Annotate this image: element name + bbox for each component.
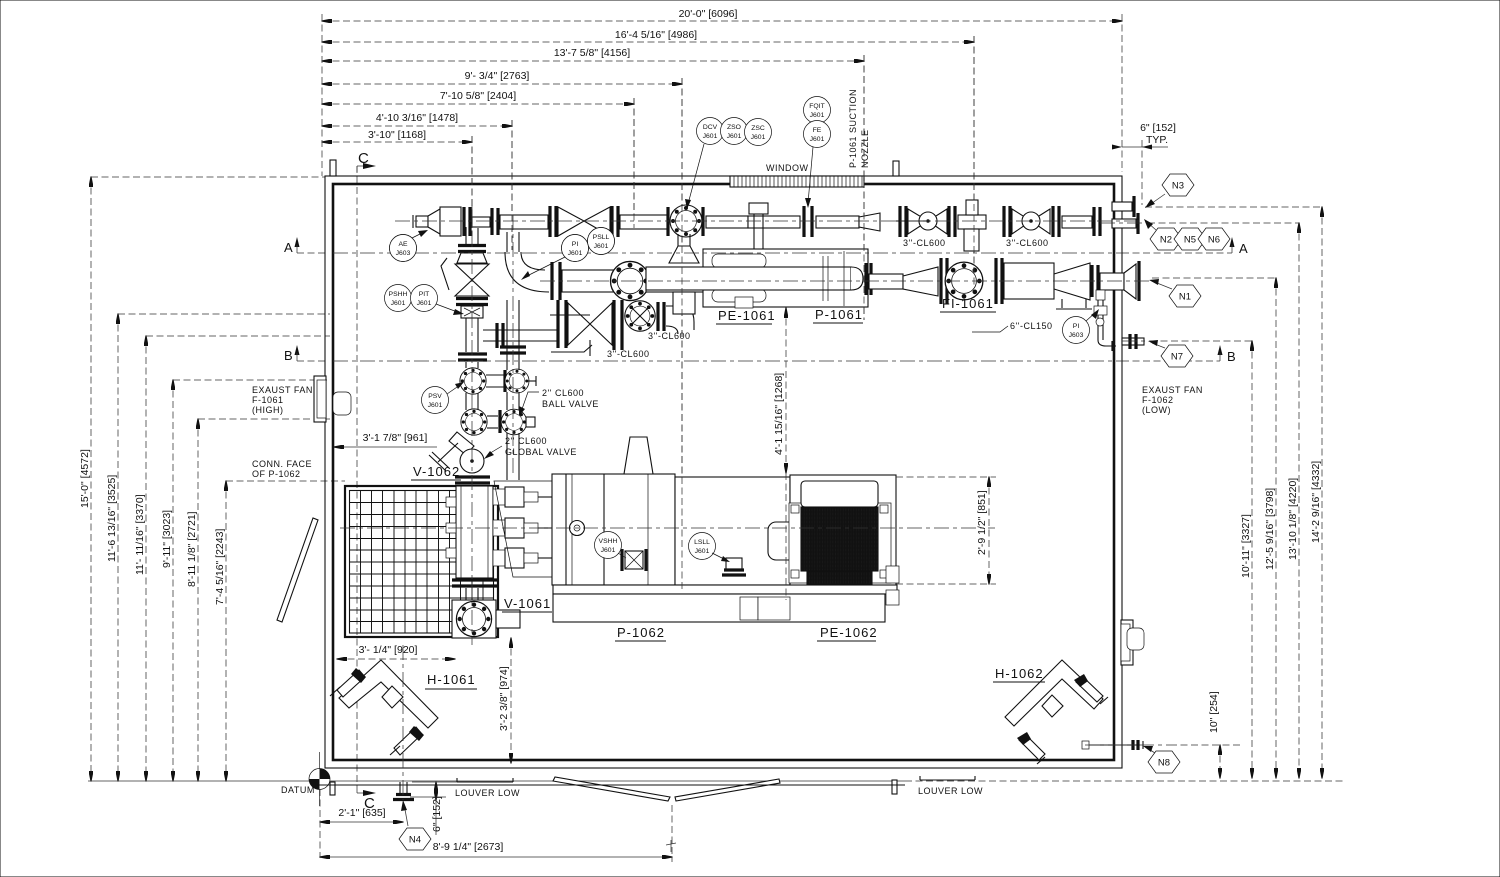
- svg-text:J601: J601: [568, 250, 583, 257]
- node N3: [1162, 174, 1194, 196]
- svg-text:N2: N2: [1160, 235, 1172, 246]
- svg-text:9'- 3/4" [2763]: 9'- 3/4" [2763]: [465, 70, 530, 82]
- instrument bubble PSHH J601: [385, 285, 412, 312]
- baseline: [88, 780, 905, 782]
- flange pair: [610, 206, 613, 237]
- louver opening left: [457, 781, 513, 783]
- svg-text:PI: PI: [1073, 323, 1080, 330]
- instrument bubble AE J603: [390, 235, 417, 262]
- ball valve 3''-CL600 #2: [1012, 209, 1031, 234]
- dimension 8'-11 1/8" [2721]: [197, 419, 199, 781]
- svg-text:8'-11 1/8" [2721]: 8'-11 1/8" [2721]: [186, 511, 198, 587]
- dimension 11'-6 13/16" [3525]: [117, 314, 119, 781]
- pipe segment: [816, 216, 859, 228]
- top pipe run centerline: [395, 220, 1142, 222]
- svg-text:N6: N6: [1208, 235, 1220, 246]
- AE injection quill assembly: [412, 215, 414, 228]
- vessel V-1062: [456, 486, 493, 578]
- svg-text:J601: J601: [594, 243, 609, 250]
- svg-text:N5: N5: [1184, 235, 1196, 246]
- nozzle N2 through wall: [1112, 219, 1136, 228]
- svg-text:OF P-1062: OF P-1062: [252, 469, 301, 479]
- svg-text:GLOBAL VALVE: GLOBAL VALVE: [505, 447, 577, 457]
- dimension 14'-2 9/16" [4332]: [1321, 207, 1323, 778]
- pump P-1062 casing: [494, 481, 554, 577]
- dimension 2'-9 1/2" [851]: [896, 476, 996, 478]
- wall stub bottom right: [892, 780, 897, 794]
- svg-text:F-1061: F-1061: [252, 395, 284, 405]
- pipe segment: [706, 216, 748, 228]
- svg-text:ZSO: ZSO: [727, 124, 741, 131]
- extension line x=682: [681, 78, 683, 592]
- elbow from top run down: [465, 227, 467, 236]
- triplex manifold row 3: [493, 550, 505, 566]
- node N5: [1174, 228, 1206, 250]
- vent riser drop to pump box: [753, 228, 755, 250]
- nozzle N1 flange: [1124, 264, 1136, 299]
- discharge pipe: [869, 274, 903, 289]
- bypass elbow down: [666, 306, 694, 330]
- svg-text:A: A: [284, 240, 293, 255]
- reducer: [859, 213, 880, 231]
- instrument bubble PSLL J601: [588, 228, 615, 255]
- gate valve: [558, 207, 584, 236]
- svg-text:4'-1 15/16" [1268]: 4'-1 15/16" [1268]: [773, 373, 785, 455]
- svg-text:N8: N8: [1158, 758, 1170, 769]
- flange pair: [462, 207, 465, 236]
- flange pair: [456, 297, 488, 300]
- dimension 15'-0" [4572]: [90, 177, 92, 781]
- bypass actuator box: [673, 292, 695, 314]
- svg-text:J603: J603: [1069, 332, 1084, 339]
- svg-text:J601: J601: [428, 402, 443, 409]
- nozzle N3 through wall: [1112, 202, 1132, 211]
- bypass flange stack: [612, 300, 615, 350]
- suction header pipe: [562, 270, 614, 292]
- svg-text:B: B: [284, 348, 293, 363]
- datum target symbol: [319, 752, 321, 806]
- instrument bubble PIT J601: [411, 285, 438, 312]
- svg-text:6" [152]: 6" [152]: [1140, 122, 1176, 134]
- motor finned body: [801, 507, 878, 571]
- extension line x=1122: [1121, 14, 1123, 172]
- svg-text:PSV: PSV: [428, 393, 442, 400]
- header flange pair: [550, 262, 553, 300]
- dimension 7'-4 5/16" [2243]: [225, 481, 227, 781]
- svg-text:DCV: DCV: [703, 124, 718, 131]
- flange pair: [1051, 206, 1054, 237]
- skid base edge line: [318, 784, 905, 786]
- node N6: [1198, 228, 1230, 250]
- svg-text:P-1061: P-1061: [815, 307, 863, 322]
- pump barrel pipe through box: [646, 267, 851, 290]
- pipe segment: [500, 215, 548, 229]
- pump eye detail: [570, 521, 585, 536]
- node N1: [1169, 285, 1201, 307]
- pipe vessel to V-1061: [465, 588, 467, 601]
- svg-text:16'-4 5/16" [4986]: 16'-4 5/16" [4986]: [615, 29, 697, 41]
- motor cap: [801, 481, 878, 507]
- flange pair: [939, 258, 942, 304]
- ball valve 3''-CL600 #1: [908, 209, 928, 234]
- N8 nozzle centerline: [1085, 744, 1170, 746]
- svg-text:13'-7 5/8" [4156]: 13'-7 5/8" [4156]: [554, 47, 630, 59]
- svg-text:A: A: [1239, 241, 1248, 256]
- global valve diagonal body: [449, 432, 474, 455]
- centerline extensions over piping: [472, 36, 974, 592]
- svg-text:AE: AE: [398, 241, 408, 248]
- svg-text:(LOW): (LOW): [1142, 405, 1171, 415]
- instrument bubble PI J603: [1063, 317, 1090, 344]
- svg-text:6''-CL150: 6''-CL150: [1010, 321, 1052, 331]
- expander cone: [903, 267, 938, 296]
- svg-text:14'-2 9/16" [4332]: 14'-2 9/16" [4332]: [1310, 461, 1322, 543]
- triplex manifold row 2: [493, 520, 505, 536]
- flange pair: [666, 207, 669, 236]
- triplex manifold row 1: [493, 489, 505, 505]
- svg-text:P-1061 SUCTION: P-1061 SUCTION: [848, 89, 858, 168]
- svg-text:FI-1061: FI-1061: [942, 296, 994, 311]
- drain nozzle at bottom: [399, 782, 401, 793]
- header bolted flange disc: [610, 261, 649, 300]
- instrument bubble PSLL J601: [588, 228, 615, 255]
- svg-text:P-1062: P-1062: [617, 625, 665, 640]
- heater H-1061 middle junction box: [382, 686, 403, 708]
- flange pair to vessel: [455, 475, 490, 478]
- heater H-1062 element bottom-left: [1019, 734, 1045, 760]
- svg-text:PSLL: PSLL: [593, 234, 610, 241]
- svg-text:PE-1062: PE-1062: [820, 625, 878, 640]
- flange pair: [1092, 207, 1095, 236]
- floor grating outer frame: [345, 486, 498, 637]
- node N7: [1161, 345, 1193, 367]
- louver opening right: [920, 779, 975, 781]
- instrument bubble ZSC J601: [745, 119, 772, 146]
- instrument bubble PSV J601: [422, 387, 449, 414]
- svg-text:PE-1061: PE-1061: [718, 308, 776, 323]
- svg-text:F-1062: F-1062: [1142, 395, 1174, 405]
- svg-text:2'' CL600: 2'' CL600: [505, 436, 547, 446]
- instrument bubble PI J601: [562, 235, 589, 262]
- svg-text:H-1061: H-1061: [427, 672, 476, 687]
- svg-text:TYP.: TYP.: [1146, 134, 1168, 146]
- svg-text:J601: J601: [417, 300, 432, 307]
- svg-text:10" [254]: 10" [254]: [1208, 691, 1220, 733]
- nozzle N7 through wall: [1122, 338, 1144, 345]
- svg-text:12'-5 9/16" [3798]: 12'-5 9/16" [3798]: [1264, 488, 1276, 570]
- dimension 13'-10 1/8" [4220]: [1298, 223, 1300, 778]
- svg-text:PI: PI: [572, 241, 579, 248]
- LSLL fitting: [726, 558, 742, 570]
- bypass flange pair right: [656, 302, 659, 331]
- pump chimney: [624, 437, 653, 474]
- extension line x=472: [471, 136, 473, 236]
- nozzle N8 drain pipe: [1085, 744, 1140, 746]
- global valve handwheel: [460, 449, 484, 473]
- svg-text:J601: J601: [391, 300, 406, 307]
- flange pair: [898, 206, 901, 237]
- svg-text:9'-11" [3023]: 9'-11" [3023]: [161, 510, 173, 568]
- instrument bubble FE J601: [804, 121, 831, 148]
- pipe to nozzle N1: [1100, 273, 1124, 290]
- svg-text:20'-0" [6096]: 20'-0" [6096]: [679, 8, 738, 20]
- valve lever: [441, 258, 449, 290]
- svg-text:3'-1 7/8" [961]: 3'-1 7/8" [961]: [363, 432, 428, 444]
- pipe A segment: [465, 318, 467, 352]
- svg-text:3''-CL600: 3''-CL600: [607, 349, 649, 359]
- svg-text:FE: FE: [813, 127, 822, 134]
- svg-text:3''-CL600: 3''-CL600: [1006, 238, 1048, 248]
- heater H-1062 element right: [1076, 676, 1103, 702]
- motor PE-1062 outer box: [790, 475, 896, 594]
- svg-text:3''-CL600: 3''-CL600: [903, 238, 945, 248]
- global valve stem and T-handle: [438, 443, 458, 462]
- svg-text:J601: J601: [810, 112, 825, 119]
- svg-text:EXAUST FAN: EXAUST FAN: [1142, 385, 1203, 395]
- flange pair: [490, 208, 493, 235]
- svg-text:H-1062: H-1062: [995, 666, 1044, 681]
- heater H-1062 chevron duct: [1005, 660, 1103, 726]
- svg-text:V-1062: V-1062: [413, 464, 460, 479]
- svg-text:J601: J601: [695, 548, 710, 555]
- flange pair: [1002, 206, 1005, 237]
- bypass valve lever: [551, 345, 592, 352]
- svg-text:LOUVER LOW: LOUVER LOW: [918, 786, 983, 796]
- svg-text:CONN. FACE: CONN. FACE: [252, 459, 312, 469]
- flange pair: [947, 206, 950, 237]
- svg-text:(HIGH): (HIGH): [252, 405, 284, 415]
- instrument stack at wall: [1096, 290, 1105, 300]
- svg-text:J603: J603: [396, 250, 411, 257]
- valve bowtie vertical: [455, 264, 489, 280]
- vertical centerline left pipe cluster: [471, 205, 473, 645]
- svg-text:11'- 11/16" [3370]: 11'- 11/16" [3370]: [134, 494, 146, 575]
- svg-text:VSHH: VSHH: [599, 538, 618, 545]
- dimension 10'-11" [3327]: [1251, 341, 1253, 778]
- filter support bracket: [1061, 299, 1063, 308]
- flange pair: [458, 352, 487, 355]
- dimension 11'- 11/16" [3370]: [145, 336, 147, 781]
- pipe A segment: [465, 362, 467, 368]
- extension line left: [321, 14, 323, 176]
- svg-text:J601: J601: [751, 134, 766, 141]
- cross pipe to ball valve: [487, 415, 498, 417]
- svg-text:8'-9 1/4" [2673]: 8'-9 1/4" [2673]: [433, 841, 504, 853]
- pump discharge flange pair: [864, 263, 867, 295]
- svg-text:3'-10" [1168]: 3'-10" [1168]: [368, 129, 426, 141]
- svg-text:LSLL: LSLL: [694, 539, 710, 546]
- heater H-1062 middle junction box: [1042, 695, 1063, 717]
- label 6''-CL150: [972, 326, 1008, 332]
- svg-text:7'-10 5/8" [2404]: 7'-10 5/8" [2404]: [440, 90, 516, 102]
- instrument bubble DCV J601: [697, 118, 724, 145]
- svg-text:FQIT: FQIT: [809, 103, 824, 110]
- elbow from riser to header: [505, 252, 549, 292]
- section C line: [356, 166, 358, 789]
- svg-text:2'-9 1/2" [851]: 2'-9 1/2" [851]: [976, 490, 988, 555]
- svg-text:3''-CL600: 3''-CL600: [648, 331, 690, 341]
- pump train centerline: [340, 527, 995, 529]
- N7 nozzle centerline: [1122, 340, 1150, 342]
- instrument bubble VSHH J601: [595, 532, 622, 559]
- extension line x=634: [633, 98, 635, 228]
- open door leaf lower-left: [277, 518, 318, 622]
- extension line x=512: [511, 120, 513, 250]
- lower tee bolted ring: [461, 409, 487, 435]
- PSV tee bolted ring: [460, 368, 486, 394]
- node N4: [404, 804, 408, 826]
- section A-A cut centerline: [333, 252, 1122, 254]
- instrument bubble FQIT J601: [804, 97, 831, 124]
- vessel V-1061 bolted top: [456, 601, 491, 636]
- svg-text:LOUVER LOW: LOUVER LOW: [455, 788, 520, 798]
- louver door leaf left: [553, 777, 670, 801]
- dimension 10" [254]: [1219, 745, 1221, 778]
- V-1061 side stub: [496, 610, 520, 628]
- header pipe to pump: [646, 270, 796, 292]
- vertical centerline pipe B: [512, 215, 514, 475]
- flange pair: [458, 244, 486, 247]
- filter FI-1061 bolted cover: [945, 262, 983, 300]
- vessel side tabs: [446, 497, 456, 507]
- svg-text:BALL VALVE: BALL VALVE: [542, 399, 599, 409]
- svg-text:11'-6 13/16" [3525]: 11'-6 13/16" [3525]: [106, 475, 118, 562]
- svg-text:J601: J601: [601, 547, 616, 554]
- extension line x=974: [973, 36, 975, 288]
- instrument bubbles redrawn above centerlines: [390, 228, 615, 262]
- floor grating grid: [361, 490, 484, 633]
- suction header centerline: [540, 280, 1150, 282]
- svg-text:PIT: PIT: [419, 291, 430, 298]
- svg-text:13'-10 1/8" [4220]: 13'-10 1/8" [4220]: [1287, 478, 1299, 560]
- wall stub top left: [330, 160, 336, 176]
- motor mounting frame: [789, 503, 891, 583]
- svg-text:4'-10 3/16" [1478]: 4'-10 3/16" [1478]: [376, 112, 458, 124]
- reducer: [457, 253, 487, 263]
- PSV outlet pipe: [486, 374, 504, 376]
- svg-text:DATUM: DATUM: [281, 785, 315, 795]
- svg-text:N3: N3: [1172, 181, 1184, 192]
- dimension 12'-5 9/16" [3798]: [1275, 278, 1277, 778]
- control valve DCV bolted ring: [670, 205, 702, 237]
- pipe segment: [620, 215, 668, 229]
- instrument bubble LSLL J601: [689, 533, 716, 560]
- cross pipe A-B horizontal: [483, 329, 558, 331]
- flange pair: [548, 206, 551, 237]
- instrument bubble AE J603: [390, 235, 417, 262]
- heater H-1061 element bottom: [394, 727, 422, 755]
- instrument bubble ZSO J601: [721, 118, 748, 145]
- bypass bolted elbow ring: [625, 301, 655, 331]
- exhaust fan F-1061 inner housing: [333, 392, 351, 415]
- flange pair: [1090, 265, 1093, 297]
- svg-text:N4: N4: [409, 835, 421, 846]
- section C marker bottom: [356, 789, 358, 793]
- svg-text:WINDOW: WINDOW: [766, 163, 809, 173]
- vertical centerline drain N4: [402, 645, 404, 800]
- svg-text:2'' CL600: 2'' CL600: [542, 388, 584, 398]
- dimension 9'-11" [3023]: [172, 380, 174, 781]
- DCV drop branch: [677, 234, 679, 246]
- section B-B cut centerline: [333, 360, 1122, 362]
- vessel V-1061 base plate: [452, 600, 496, 638]
- svg-text:15'-0" [4572]: 15'-0" [4572]: [79, 449, 91, 508]
- svg-text:J601: J601: [810, 136, 825, 143]
- window: [730, 176, 864, 187]
- svg-text:3'-2 3/8" [974]: 3'-2 3/8" [974]: [498, 666, 510, 731]
- svg-text:V-1061: V-1061: [504, 596, 551, 611]
- PSV ball valve ring: [505, 369, 529, 393]
- svg-text:J601: J601: [727, 133, 742, 140]
- extension line x=864: [863, 55, 865, 320]
- bypass line flange stack: [556, 300, 559, 348]
- dimension 3'-2 3/8" [974]: [510, 638, 512, 763]
- heater H-1061 chevron duct: [339, 660, 438, 728]
- svg-text:2'-1" [635]: 2'-1" [635]: [338, 807, 385, 819]
- flange pair: [994, 258, 997, 304]
- heater H-1061 element left: [337, 670, 365, 697]
- pipe B vertical: [506, 232, 508, 252]
- wire: [472, 217, 490, 227]
- svg-text:PSHH: PSHH: [389, 291, 408, 298]
- bypass gate valve: [568, 303, 590, 345]
- svg-text:ZSC: ZSC: [751, 125, 765, 132]
- wall stub bottom left: [330, 782, 335, 795]
- svg-text:EXAUST FAN: EXAUST FAN: [252, 385, 313, 395]
- svg-text:10'-11" [3327]: 10'-11" [3327]: [1240, 514, 1252, 578]
- vent cap on pipe: [748, 216, 800, 228]
- coupling housing: [675, 477, 790, 585]
- svg-text:7'-4 5/16" [2243]: 7'-4 5/16" [2243]: [214, 529, 226, 605]
- VSHH fitting: [625, 551, 643, 569]
- FE orifice flanges: [802, 206, 805, 237]
- node N2: [1150, 228, 1182, 250]
- instrument tee block PSHH/PIT: [461, 306, 483, 318]
- node N8: [1148, 751, 1180, 773]
- N2 nozzle centerline: [1100, 222, 1145, 224]
- pump P-1061 / motor box: [703, 249, 868, 307]
- svg-text:J601: J601: [703, 133, 718, 140]
- svg-text:N1: N1: [1179, 292, 1191, 303]
- exhaust fan F-1062 outer housing: [1127, 628, 1144, 650]
- svg-text:NOZZLE: NOZZLE: [860, 129, 870, 168]
- baseplate: [553, 585, 897, 594]
- enclosure outer wall: [325, 176, 1122, 768]
- exhaust fan F-1061 stub on left wall: [314, 376, 326, 422]
- pipe A segment: [465, 393, 467, 410]
- svg-text:B: B: [1227, 349, 1236, 364]
- louver door leaf right: [675, 779, 780, 801]
- pipe segment: [1062, 216, 1092, 228]
- ball valve 2'' bolted ring: [501, 409, 527, 435]
- vertical dim 4'-1 15/16" [1268]: [785, 308, 787, 473]
- instrument bubble PI J601: [562, 235, 589, 262]
- tee with vertical stubs: [958, 215, 986, 229]
- wall stub top right: [893, 161, 899, 176]
- enclosure inner wall: [333, 184, 1114, 760]
- svg-text:N7: N7: [1171, 352, 1183, 363]
- svg-text:6" [152]: 6" [152]: [431, 796, 443, 832]
- exhaust fan F-1062 stub on right wall: [1121, 620, 1133, 665]
- filter body: [1004, 263, 1054, 299]
- svg-text:3'- 1/4" [920]: 3'- 1/4" [920]: [359, 644, 418, 656]
- motor fan band: [807, 571, 872, 593]
